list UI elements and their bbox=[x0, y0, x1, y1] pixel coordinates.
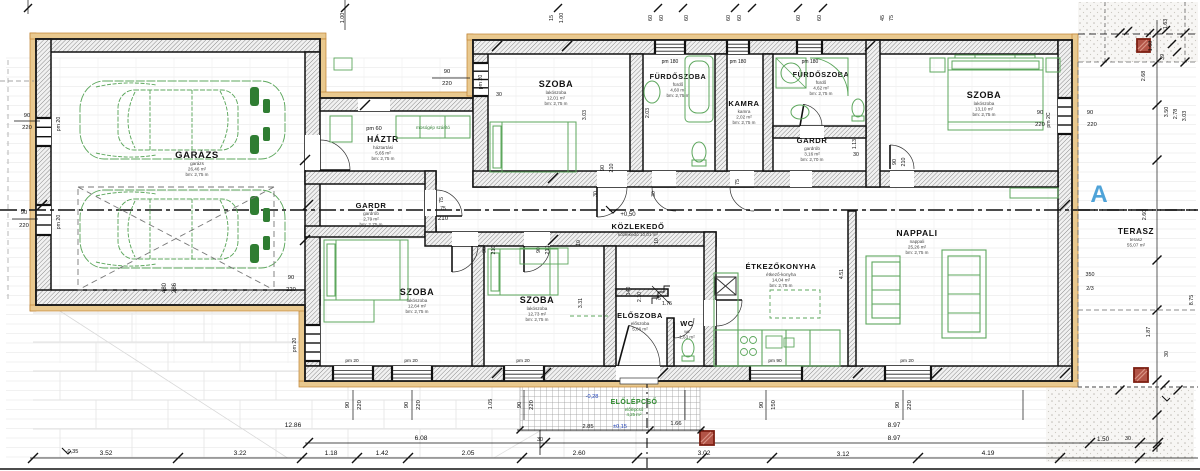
room label FÜRDŐSZOBA2 bbox=[793, 70, 850, 96]
window house right bbox=[1058, 98, 1072, 134]
faint vertical grid bbox=[60, 58, 1048, 363]
svg-text:GARDR: GARDR bbox=[356, 201, 387, 210]
svg-text:75: 75 bbox=[440, 206, 446, 212]
tick wall 11 bbox=[853, 368, 863, 378]
svg-text:3.50: 3.50 bbox=[1164, 107, 1170, 118]
svg-text:2.60: 2.60 bbox=[573, 450, 586, 457]
svg-text:5,65 m²: 5,65 m² bbox=[375, 150, 391, 155]
svg-text:5,06 m²: 5,06 m² bbox=[632, 326, 648, 331]
window bottom szoba3 b bbox=[392, 366, 432, 381]
svg-text:1.50: 1.50 bbox=[1097, 436, 1110, 443]
svg-text:lakószoba: lakószoba bbox=[974, 101, 995, 106]
svg-text:210: 210 bbox=[545, 246, 551, 255]
svg-text:90: 90 bbox=[1037, 110, 1043, 116]
svg-text:garázs: garázs bbox=[190, 161, 204, 166]
svg-text:60: 60 bbox=[648, 15, 654, 21]
room label SZOBA1 bbox=[539, 79, 574, 106]
svg-text:1.00: 1.00 bbox=[559, 13, 565, 24]
svg-text:pm 180: pm 180 bbox=[802, 59, 819, 65]
car 2 in garage bbox=[80, 190, 285, 268]
window dim stem 3 bbox=[684, 390, 686, 420]
door arc furdoszoba2 bbox=[800, 104, 822, 126]
shower furdoszoba2 bbox=[776, 58, 806, 88]
room label SZOBA3 bbox=[400, 287, 435, 314]
level arrow -0.35 bbox=[62, 448, 71, 454]
room label NAPPALI bbox=[896, 228, 937, 255]
tick top x798 bbox=[794, 4, 802, 12]
tick wall 5 bbox=[37, 200, 47, 210]
tick dim1 x1090 bbox=[1085, 438, 1095, 448]
tick dim2 x408 bbox=[403, 453, 413, 463]
svg-text:2,02 m²: 2,02 m² bbox=[736, 114, 752, 119]
svg-text:bm: 2,75 m: bm: 2,75 m bbox=[667, 93, 690, 98]
tick terrace 8 bbox=[1153, 443, 1162, 452]
svg-text:háztartási: háztartási bbox=[373, 145, 393, 150]
toilet furdoszoba1 bbox=[692, 142, 706, 166]
svg-text:30: 30 bbox=[853, 152, 859, 158]
tick wall 1 bbox=[492, 41, 502, 51]
svg-text:30: 30 bbox=[593, 191, 599, 197]
wall furdoszoba1 right bbox=[715, 54, 727, 171]
svg-text:90: 90 bbox=[892, 159, 898, 165]
window dim stem 4 bbox=[765, 390, 767, 420]
tick terrace 10 bbox=[1181, 58, 1190, 67]
svg-text:nappali: nappali bbox=[910, 239, 925, 244]
tick terrace 14 bbox=[1174, 386, 1183, 395]
svg-text:286: 286 bbox=[172, 282, 178, 293]
wall furdo2-gardr2 right / szoba2 left bbox=[866, 40, 880, 187]
terrace tick helper bbox=[1078, 209, 1198, 211]
door bottom nappali terrace bbox=[885, 366, 931, 381]
section arrow corridor bbox=[606, 206, 617, 213]
tick terrace 12 bbox=[1181, 29, 1190, 38]
svg-text:bm: 2,75 m: bm: 2,75 m bbox=[526, 317, 549, 322]
svg-text:lakószoba: lakószoba bbox=[546, 90, 567, 95]
doormat recess bbox=[334, 58, 352, 70]
tick dim1 x308 bbox=[303, 438, 313, 448]
svg-text:60: 60 bbox=[737, 15, 743, 21]
dimension line bottom 2 bbox=[30, 457, 1198, 459]
svg-text:4.19: 4.19 bbox=[982, 450, 995, 457]
small arrow terrace bbox=[1162, 396, 1170, 401]
door opening furdoszoba1 bbox=[652, 171, 676, 187]
svg-text:3.22: 3.22 bbox=[234, 450, 247, 457]
tick wall 6 bbox=[548, 173, 558, 183]
tick dim1 x1140 bbox=[1135, 438, 1145, 448]
wall corridor top (room row bottom) bbox=[473, 171, 1058, 187]
room label GARDR1 bbox=[356, 201, 387, 227]
svg-text:39: 39 bbox=[1160, 54, 1166, 60]
svg-text:8.97: 8.97 bbox=[888, 422, 901, 429]
wall GARDR1 top bbox=[305, 171, 436, 184]
svg-text:ÉTKEZŐKONYHA: ÉTKEZŐKONYHA bbox=[746, 262, 817, 271]
exterior wall house bottom bbox=[305, 366, 1072, 381]
insulation band garage bottom bbox=[30, 305, 306, 311]
svg-text:4.51: 4.51 bbox=[839, 269, 845, 279]
svg-text:60: 60 bbox=[659, 15, 665, 21]
svg-text:12,64 m²: 12,64 m² bbox=[408, 303, 427, 308]
tick terrace 9 bbox=[1101, 58, 1110, 67]
section line vertical at steps bbox=[646, 378, 648, 470]
svg-text:30: 30 bbox=[496, 92, 502, 98]
room label WC bbox=[679, 319, 695, 339]
tick top x28 bbox=[24, 4, 32, 12]
svg-text:8.97: 8.97 bbox=[888, 435, 901, 442]
svg-text:pm 180: pm 180 bbox=[662, 59, 679, 65]
svg-text:220: 220 bbox=[529, 400, 535, 410]
svg-text:90: 90 bbox=[759, 402, 765, 408]
window recess wall bbox=[473, 63, 488, 96]
svg-text:220: 220 bbox=[416, 400, 422, 410]
svg-text:bm: 2,75 m: bm: 2,75 m bbox=[406, 309, 429, 314]
svg-text:220: 220 bbox=[22, 125, 32, 131]
wall szoba1 right bbox=[630, 54, 643, 171]
svg-text:30: 30 bbox=[537, 437, 543, 443]
svg-text:220: 220 bbox=[19, 223, 29, 229]
kitchen counter L bbox=[714, 273, 840, 366]
svg-text:ELŐLÉPCSŐ: ELŐLÉPCSŐ bbox=[611, 397, 658, 406]
building exterior outline bbox=[36, 39, 1072, 381]
bottom border line bbox=[0, 468, 1200, 470]
wardrobe szoba3 bbox=[324, 300, 374, 322]
svg-text:bm: 2,75 m: bm: 2,75 m bbox=[973, 112, 996, 117]
bed szoba2 bbox=[948, 58, 1043, 130]
room label KÖZLEKEDŐ bbox=[611, 222, 664, 237]
svg-text:SZOBA: SZOBA bbox=[520, 295, 555, 305]
tick top x752 bbox=[748, 4, 756, 12]
svg-text:KÖZLEKEDŐ: KÖZLEKEDŐ bbox=[611, 222, 664, 231]
window garage left 1 bbox=[36, 118, 51, 146]
insulation band left below garage bbox=[299, 305, 305, 381]
svg-text:2.03: 2.03 bbox=[645, 108, 651, 118]
tv cabinet nappali bbox=[1010, 188, 1058, 198]
svg-text:1.18: 1.18 bbox=[325, 450, 338, 457]
door arc szoba3 bbox=[452, 246, 478, 272]
terrace dashed top line bbox=[1078, 33, 1198, 35]
room label ELŐSZOBA bbox=[617, 311, 663, 331]
svg-text:350: 350 bbox=[1086, 272, 1095, 278]
terrace dashed vert 2 bbox=[1184, 2, 1186, 62]
svg-text:3.03: 3.03 bbox=[1182, 111, 1188, 122]
svg-text:60: 60 bbox=[817, 15, 823, 21]
tick top x558 bbox=[554, 4, 562, 12]
wall corridor bottom bbox=[425, 232, 716, 246]
tick wall 7 bbox=[548, 235, 558, 245]
dashed ref left top bbox=[0, 80, 34, 82]
svg-text:60: 60 bbox=[796, 15, 802, 21]
stair steps glyph eloszoba bbox=[652, 286, 670, 304]
kitchen fridge shaft crossed box bbox=[715, 277, 736, 295]
svg-text:220: 220 bbox=[1035, 122, 1045, 128]
svg-text:1.13: 1.13 bbox=[852, 139, 858, 149]
tick wall 9 bbox=[541, 368, 551, 378]
tick dim2 x178 bbox=[173, 453, 183, 463]
svg-text:2,79 m²: 2,79 m² bbox=[363, 216, 379, 221]
room label ÉTKEZŐKONYHA bbox=[746, 262, 817, 288]
tick wall 16 bbox=[300, 155, 310, 165]
insulation band recess bottom bbox=[320, 92, 473, 98]
svg-text:bm: 2,75 m: bm: 2,75 m bbox=[372, 156, 395, 161]
door opening wc bbox=[674, 318, 696, 322]
svg-text:6.08: 6.08 bbox=[415, 435, 428, 442]
tick terrace 15 bbox=[1116, 386, 1125, 395]
svg-text:90: 90 bbox=[895, 402, 901, 408]
svg-text:4,60 m²: 4,60 m² bbox=[670, 87, 686, 92]
svg-text:bm: 2,75 m: bm: 2,75 m bbox=[810, 91, 833, 96]
tick dim2 x302 bbox=[297, 453, 307, 463]
wall szoba4-eloszoba bbox=[604, 246, 616, 366]
svg-text:220: 220 bbox=[1087, 122, 1097, 128]
window dim stem 6 bbox=[1022, 390, 1024, 420]
tick dim1 x1158 bbox=[1153, 438, 1163, 448]
svg-text:8.75: 8.75 bbox=[1189, 295, 1195, 306]
svg-text:1.66: 1.66 bbox=[670, 421, 681, 427]
door opening gardr1 bbox=[425, 190, 436, 216]
nightstand szoba2 right bbox=[1046, 58, 1060, 72]
tick terrace 13 bbox=[1161, 381, 1170, 390]
wall wc left bbox=[667, 318, 674, 366]
svg-text:90: 90 bbox=[404, 402, 410, 408]
tick steps 701 bbox=[698, 427, 705, 434]
room label GARDR2 bbox=[797, 136, 828, 162]
svg-text:90: 90 bbox=[482, 247, 488, 253]
svg-text:pm 180: pm 180 bbox=[730, 59, 747, 65]
door arc szoba4 bbox=[524, 246, 550, 272]
svg-text:pm 20: pm 20 bbox=[56, 117, 62, 132]
window bottom kitchen bbox=[750, 366, 802, 381]
tick terrace 2 bbox=[1153, 101, 1162, 110]
wardrobe szoba2 top bbox=[955, 55, 1035, 58]
tick steps 650 bbox=[647, 427, 654, 434]
window bottom szoba3 a bbox=[333, 366, 373, 381]
sink furdoszoba2 bbox=[791, 105, 809, 119]
kitchen table dashed bbox=[770, 290, 820, 318]
door opening haztr top bbox=[358, 98, 390, 111]
exterior wall garage top bbox=[36, 39, 320, 52]
section line A-A horizontal bbox=[0, 209, 1196, 211]
tick wall 14 bbox=[360, 100, 370, 110]
tick top x658 bbox=[654, 4, 662, 12]
kitchen stove bbox=[741, 337, 757, 356]
svg-text:90: 90 bbox=[600, 165, 606, 171]
svg-text:SZOBA: SZOBA bbox=[539, 79, 574, 89]
room label SZOBA2 bbox=[967, 90, 1002, 117]
svg-text:90: 90 bbox=[21, 210, 27, 216]
svg-text:pm 20: pm 20 bbox=[292, 338, 298, 353]
svg-text:220: 220 bbox=[907, 400, 913, 410]
svg-text:90: 90 bbox=[24, 113, 30, 119]
insulation band house right bbox=[1072, 34, 1078, 387]
svg-text:mosógép szárító: mosógép szárító bbox=[416, 125, 450, 130]
svg-text:bm: 2,75 m: bm: 2,75 m bbox=[186, 172, 209, 177]
window top 2 bbox=[727, 40, 749, 54]
svg-text:210: 210 bbox=[438, 215, 449, 222]
svg-text:90: 90 bbox=[1087, 110, 1093, 116]
svg-text:TERASZ: TERASZ bbox=[1118, 227, 1154, 236]
svg-text:2.68: 2.68 bbox=[1141, 71, 1147, 82]
svg-text:2.60: 2.60 bbox=[1142, 210, 1148, 221]
tick terrace 5 bbox=[1153, 306, 1162, 315]
svg-text:30: 30 bbox=[1164, 351, 1170, 357]
tick top x735 bbox=[731, 4, 739, 12]
svg-text:75: 75 bbox=[439, 197, 445, 203]
room label KAMRA bbox=[728, 99, 759, 125]
dimline garage win2 bbox=[12, 218, 38, 220]
svg-text:bm: 2,75 m: bm: 2,75 m bbox=[733, 120, 756, 125]
svg-text:közlekedő 10,01 m²: közlekedő 10,01 m² bbox=[618, 232, 659, 237]
top margin tick line2 bbox=[344, 0, 346, 30]
window dim stem 2 bbox=[523, 390, 525, 420]
svg-text:2.05: 2.05 bbox=[462, 450, 475, 457]
svg-text:2.10: 2.10 bbox=[637, 292, 643, 302]
entry steps grid ELŐLÉPCSŐ bbox=[520, 386, 700, 431]
svg-text:220: 220 bbox=[286, 287, 296, 293]
window garage left 2 bbox=[36, 205, 51, 235]
svg-text:1.68: 1.68 bbox=[1148, 41, 1154, 52]
left margin dashed vertical bbox=[7, 60, 9, 300]
door opening garage-haztr bbox=[305, 135, 320, 170]
tick top x345 bbox=[341, 4, 349, 12]
svg-text:HÁZTR: HÁZTR bbox=[367, 134, 399, 144]
svg-text:220: 220 bbox=[357, 400, 363, 410]
room label FÜRDŐSZOBA1 bbox=[650, 72, 707, 98]
bed szoba4 bbox=[488, 249, 558, 295]
sink furdoszoba1 bbox=[644, 81, 660, 103]
door arc garage-haztr bbox=[320, 140, 350, 170]
svg-text:pm 20: pm 20 bbox=[404, 358, 418, 364]
svg-text:FÜRDŐSZOBA: FÜRDŐSZOBA bbox=[650, 72, 707, 81]
window dim stem 5 bbox=[902, 390, 904, 420]
svg-text:előszoba: előszoba bbox=[631, 321, 650, 326]
svg-text:210: 210 bbox=[609, 164, 615, 173]
svg-text:WC: WC bbox=[680, 319, 694, 328]
svg-text:3.52: 3.52 bbox=[100, 450, 113, 457]
svg-text:4,25 m²: 4,25 m² bbox=[627, 412, 642, 417]
wall GARDR1 bottom bbox=[305, 226, 436, 237]
tick dim1 x545 bbox=[540, 438, 550, 448]
svg-text:30: 30 bbox=[1125, 436, 1131, 442]
door opening furdoszoba2 bbox=[800, 126, 824, 138]
svg-text:3.31: 3.31 bbox=[578, 298, 584, 308]
appliances haztr bbox=[330, 116, 470, 142]
tick terrace top 4 bbox=[1173, 48, 1181, 56]
kitchen sink bbox=[766, 336, 794, 348]
dimension line bottom 1 bbox=[305, 442, 1160, 444]
svg-text:15: 15 bbox=[549, 15, 555, 21]
svg-text:30: 30 bbox=[651, 191, 657, 197]
tick dim2 x33 bbox=[28, 453, 38, 463]
dimline recess win bbox=[432, 77, 470, 79]
svg-text:25,26 m²: 25,26 m² bbox=[908, 244, 927, 249]
tick terrace top 1 bbox=[1146, 29, 1154, 37]
window dim stem 1 bbox=[411, 390, 413, 420]
svg-text:60: 60 bbox=[726, 15, 732, 21]
dotted ground bottom-right bbox=[1046, 388, 1194, 462]
wall eloszoba-kitchen bbox=[704, 232, 716, 366]
svg-text:12,01 m²: 12,01 m² bbox=[547, 95, 566, 100]
tick terrace top 3 bbox=[1168, 40, 1176, 48]
svg-text:A: A bbox=[1090, 181, 1107, 208]
tick wall 8 bbox=[492, 368, 502, 378]
svg-text:3.02: 3.02 bbox=[698, 450, 711, 457]
door arc gardr1 bbox=[436, 190, 462, 216]
terrace dashed bottom edge bbox=[1078, 386, 1198, 388]
door opening kamra bbox=[730, 171, 754, 187]
tick wall 10 bbox=[658, 368, 668, 378]
svg-text:lakószoba: lakószoba bbox=[527, 306, 548, 311]
svg-text:45: 45 bbox=[880, 15, 886, 21]
svg-text:fürdő: fürdő bbox=[816, 80, 827, 85]
tick terrace top 2 bbox=[1162, 26, 1170, 34]
bed szoba1 bbox=[490, 122, 576, 172]
tick wall 12 bbox=[932, 368, 942, 378]
svg-text:-0,28: -0,28 bbox=[586, 394, 599, 400]
wall kamra right bbox=[763, 54, 773, 171]
wardrobe szoba4 top bbox=[520, 248, 568, 264]
door arc wc bbox=[674, 318, 694, 338]
svg-text:pm 20: pm 20 bbox=[478, 75, 484, 90]
svg-text:12,73 m²: 12,73 m² bbox=[528, 311, 547, 316]
insulation band garage top bbox=[30, 33, 326, 39]
tick terrace 0 bbox=[1153, 29, 1162, 38]
svg-text:90: 90 bbox=[288, 275, 294, 281]
wall eloszoba niche bbox=[616, 289, 668, 296]
steps dim line bbox=[517, 429, 704, 431]
svg-text:26,46 m²: 26,46 m² bbox=[188, 166, 207, 171]
tick steps 520 bbox=[517, 427, 524, 434]
svg-text:140: 140 bbox=[626, 287, 632, 296]
entry door opening bbox=[616, 366, 660, 381]
column marker bottom-right bbox=[1134, 368, 1148, 382]
door opening kitchen bbox=[704, 300, 716, 326]
svg-text:3.12: 3.12 bbox=[837, 451, 850, 458]
svg-text:75: 75 bbox=[889, 15, 895, 21]
svg-text:10: 10 bbox=[654, 238, 660, 244]
door opening szoba1 bbox=[597, 171, 627, 187]
sofa nappali 2 bbox=[942, 250, 986, 338]
insulation band house-left upper bbox=[467, 34, 473, 96]
svg-text:90: 90 bbox=[345, 402, 351, 408]
terrace dashed mid bbox=[1078, 309, 1196, 311]
svg-text:bm: 2,75 m: bm: 2,75 m bbox=[906, 250, 929, 255]
svg-text:2.85: 2.85 bbox=[582, 424, 593, 430]
svg-text:480: 480 bbox=[162, 282, 168, 293]
exterior wall house-left upper bbox=[473, 40, 488, 187]
nightstand szoba2 left bbox=[930, 58, 945, 72]
svg-text:bm: 2,70 m: bm: 2,70 m bbox=[801, 157, 824, 162]
tick wall 13 bbox=[1060, 368, 1070, 378]
door opening gardr2 bbox=[790, 171, 812, 187]
bed szoba3 bbox=[324, 240, 408, 300]
svg-text:3,16 m²: 3,16 m² bbox=[804, 151, 820, 156]
svg-text:12.86: 12.86 bbox=[285, 422, 302, 429]
exterior wall recess bottom bbox=[320, 98, 473, 111]
svg-text:2.78: 2.78 bbox=[1173, 109, 1179, 120]
door opening szoba4 bbox=[524, 232, 550, 246]
window dim stem 0 bbox=[352, 390, 354, 420]
svg-text:1.05: 1.05 bbox=[488, 399, 494, 410]
terrace dashed left edge bbox=[1077, 62, 1079, 387]
tick terrace top 0 bbox=[1124, 27, 1132, 35]
svg-text:pm 20: pm 20 bbox=[516, 358, 530, 364]
tick wall 0 bbox=[562, 41, 572, 51]
svg-text:ELŐSZOBA: ELŐSZOBA bbox=[617, 311, 663, 320]
svg-text:bm: 2,75 m: bm: 2,75 m bbox=[545, 101, 568, 106]
toilet wc room bbox=[682, 339, 694, 361]
svg-text:pm 20: pm 20 bbox=[56, 215, 62, 230]
column marker at steps bbox=[700, 431, 714, 445]
terrace dimension chain vertical bbox=[1156, 20, 1158, 452]
